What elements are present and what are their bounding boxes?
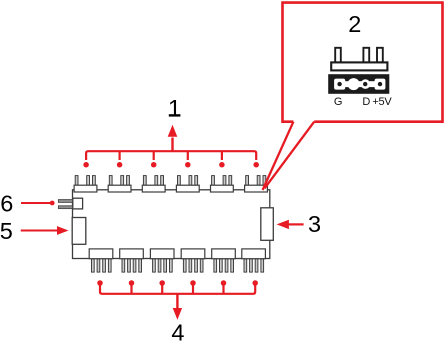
svg-text:6: 6 [0,191,13,217]
svg-text:1: 1 [168,96,181,123]
svg-text:4: 4 [171,320,184,343]
svg-text:D: D [362,96,370,108]
svg-text:G: G [334,96,343,108]
svg-text:+5V: +5V [372,96,392,108]
svg-text:3: 3 [308,211,321,237]
svg-text:2: 2 [348,11,361,37]
svg-text:5: 5 [0,218,13,244]
